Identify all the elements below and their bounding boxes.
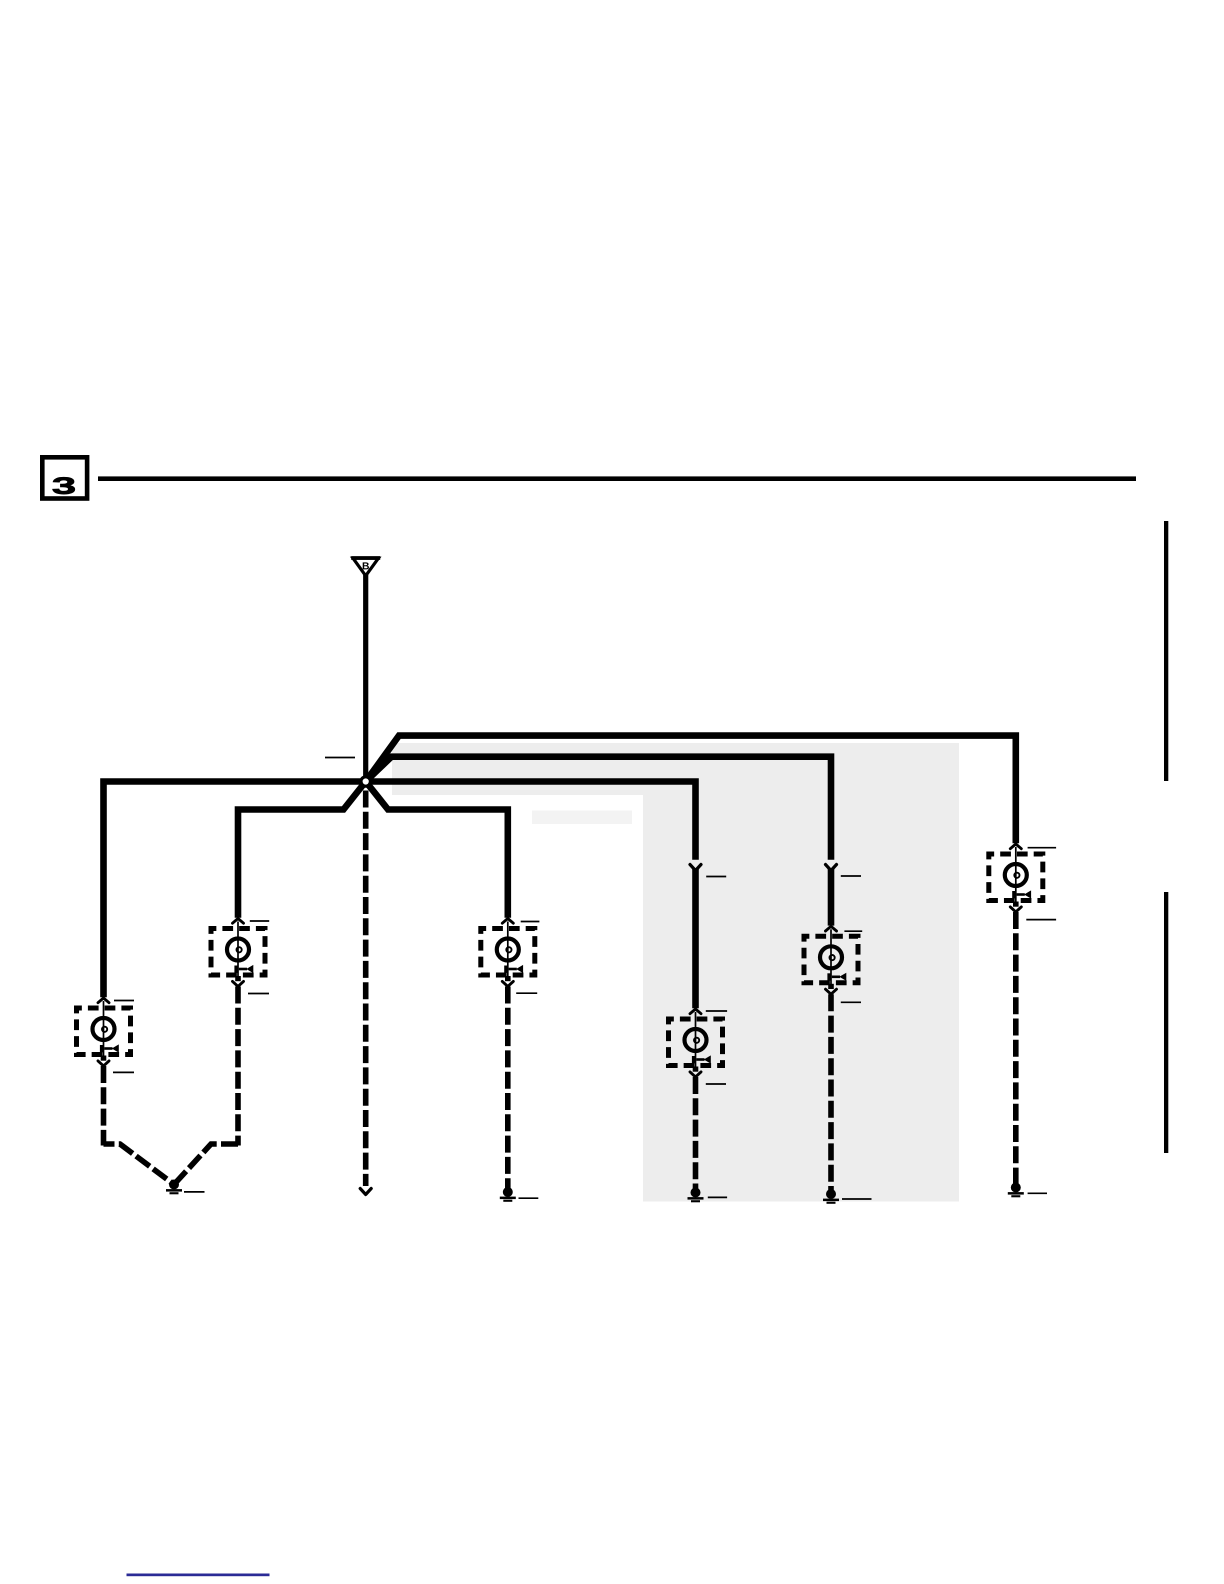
lamp E4 wire label: [516, 992, 537, 994]
dashed wire: lamp E2 to shared ground: [235, 987, 241, 1146]
lamp E1: [77, 998, 131, 1066]
footer link line: [127, 1574, 270, 1577]
lamp E6: [989, 844, 1043, 912]
wire label near junction: [325, 757, 355, 759]
ground (lamp E4): [500, 1187, 516, 1202]
right margin bar 2: [1164, 892, 1168, 1153]
lamp E5 wire label: [841, 1001, 861, 1003]
lamp E6 wire label: [1026, 919, 1056, 921]
dashed wire: lamp E3 to ground: [693, 1077, 699, 1189]
light label box: [532, 811, 632, 825]
dashed wire: lamp E6 to ground: [1013, 912, 1019, 1184]
connector X2 on lamp E5 branch: [826, 865, 837, 871]
digit 3: [53, 477, 75, 494]
junction node: [361, 777, 370, 786]
triangle top bar: [351, 556, 380, 560]
dashed wire: lamp E4 to ground: [505, 987, 511, 1189]
lamp E3 wire label: [706, 1083, 726, 1085]
lamp E4 pin label: [521, 921, 540, 923]
lamp E2 pin label: [250, 920, 269, 922]
shaded background band (upper): [392, 743, 959, 795]
right margin bar 1: [1164, 521, 1168, 781]
ground (lamp E6): [1008, 1183, 1024, 1198]
shaded background block (lower right): [643, 795, 959, 1202]
lamp E2 wire label: [248, 993, 269, 995]
wire: junction to lamp E2 (lower left): [238, 782, 366, 918]
lamp E2: [211, 919, 265, 987]
dashed wire: lamp E5 to ground: [828, 994, 834, 1190]
ground E4 label: [519, 1197, 539, 1199]
lamp E5: [804, 926, 858, 994]
ground (shared, lamps E1/E2): [166, 1180, 182, 1195]
lamp E1 pin label: [114, 1000, 134, 1002]
page number box 3: [42, 457, 87, 498]
shared ground label: [184, 1191, 205, 1193]
ground E3 label: [708, 1196, 727, 1198]
connector triangle B: [353, 558, 378, 576]
ground E6 label: [1028, 1192, 1047, 1194]
ground (lamp E5): [823, 1189, 839, 1204]
wire: connector X1 to lamp E3: [692, 868, 699, 1008]
lamp E1 wire label: [113, 1071, 134, 1073]
wire: feed from triangle B down to junction: [363, 575, 368, 782]
lamp E3: [669, 1009, 723, 1077]
ground E5 label: [842, 1198, 872, 1200]
lamp E3 pin label: [706, 1010, 727, 1012]
spur end arrow: [360, 1189, 371, 1195]
lamp E5 pin label: [844, 930, 862, 932]
wire: junction to lamp E4 (lower middle): [366, 782, 508, 918]
ground (lamp E3): [688, 1188, 704, 1203]
connector X1 on lamp E3 branch: [690, 865, 701, 871]
dashed wire: lamp E1 to shared ground: [101, 1066, 107, 1146]
header rule: [98, 476, 1136, 481]
wire: junction to lamp E6 (top right): [366, 736, 1016, 844]
wire: junction to lamp E3 (right, junction level): [366, 782, 696, 860]
wire: junction to lamp E1 (left): [104, 782, 366, 998]
lamp E4: [481, 919, 535, 987]
lamp E6 pin label: [1028, 847, 1057, 849]
wire: junction to lamp E5 (right, second): [366, 757, 831, 860]
label B: [363, 562, 369, 569]
connector X2 label: [841, 875, 861, 877]
dashed wire: central spur from junction: [363, 791, 369, 1187]
wire: connector X2 to lamp E5: [828, 868, 835, 925]
connector X1 label: [706, 876, 726, 878]
